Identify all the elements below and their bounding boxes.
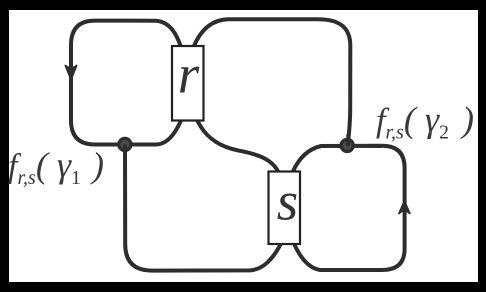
box r <box>172 46 204 121</box>
wire stub into node 2 <box>346 134 350 146</box>
arrowhead up on bottom-right loop <box>399 201 410 214</box>
black frame right <box>478 0 486 292</box>
black frame bottom <box>0 282 486 292</box>
node 2 basepoint <box>341 139 353 151</box>
wire: top-right loop rounded square through box r down to node 2 <box>194 19 351 139</box>
wire stub into node 1 <box>123 144 127 157</box>
svg-text:r: r <box>178 44 200 105</box>
box s <box>269 172 301 245</box>
wire: sweep from box r bottom-right to box s top-left <box>196 118 279 173</box>
wire: big bottom loop from node 1 down and to box s bottom-left <box>125 146 281 271</box>
svg-text:s: s <box>277 171 298 232</box>
wire: left loop gamma1 rounded square through box r <box>71 21 182 145</box>
black frame left <box>0 0 9 292</box>
arrowhead down on left loop <box>65 66 76 80</box>
node 1 basepoint <box>119 138 131 150</box>
black frame top <box>0 0 486 10</box>
wire: bottom-right loop through box s up to node 2 and around with right side <box>293 146 405 270</box>
